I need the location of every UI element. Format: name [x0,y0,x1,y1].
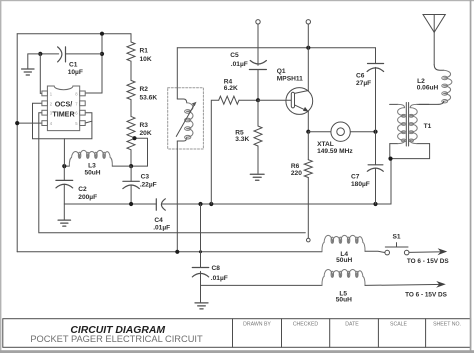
wire: antenna drop [433,32,435,64]
svg-text:C7: C7 [351,174,360,181]
svg-text:.01µF: .01µF [231,61,248,68]
svg-text:180µF: 180µF [351,181,370,188]
resistor R1 [127,42,135,61]
svg-text:T1: T1 [424,123,432,130]
svg-text:27µF: 27µF [356,80,371,87]
wire: pin4 to left rail [17,122,42,124]
wire: top mid rail [177,47,375,49]
svg-text:10µF: 10µF [68,69,83,76]
svg-text:C1: C1 [69,61,78,68]
wire: T1 secondary bottom U [390,144,430,159]
transistor Q1 [286,88,313,115]
node: C8 bottom rail crossing [199,250,202,253]
page edge shading [0,0,474,1]
node: C1 left / ground [38,52,42,56]
svg-text:C4: C4 [154,217,163,224]
svg-text:R1: R1 [140,48,149,55]
wire: pin3 long rail [39,113,306,233]
svg-text:DRAWN BY: DRAWN BY [243,321,271,327]
svg-text:20K: 20K [140,130,152,137]
terminal: C5 top [256,20,260,24]
svg-text:10K: 10K [140,56,152,63]
node: bottom rail junction [175,250,179,254]
svg-text:TIMER: TIMER [52,109,75,118]
node: collector rail junction [306,46,310,50]
node: C1 right junction [100,52,104,56]
resistor R5 [257,100,259,126]
node: L3 left / C2 [62,164,66,168]
wire: emitter drop [307,111,309,131]
svg-text:SCALE: SCALE [390,321,408,327]
svg-text:220: 220 [291,170,302,177]
node: emitter / XTAL [306,130,310,134]
svg-text:R2: R2 [140,86,149,93]
node: pin4 / left rail [15,121,19,125]
transformer T1 [390,103,398,105]
node: C3 bottom [129,202,133,206]
svg-text:3.3K: 3.3K [235,136,249,143]
svg-text:POCKET PAGER ELECTRICAL CIRCUI: POCKET PAGER ELECTRICAL CIRCUIT [30,334,203,344]
wire: top mid rail drop at x=177 [176,48,178,99]
wire R3 bottom [130,150,132,166]
svg-text:0.06uH: 0.06uH [417,85,439,92]
inductor L2 [434,65,444,71]
title block [3,319,471,348]
wire: bottom rail to L4 [17,251,322,253]
svg-text:XTAL: XTAL [317,141,334,148]
IC U1 OCS/TIMER body [42,86,85,131]
svg-text:200µF: 200µF [78,194,97,201]
svg-text:50uH: 50uH [336,297,352,304]
svg-text:OCS/: OCS/ [55,99,73,108]
node: XTAL right [373,130,377,134]
switch S1 [385,250,390,255]
wire: collector riser [307,24,309,91]
ground (below R5) [250,173,264,175]
capacitor C1 [40,53,58,55]
node: T1 bottom [388,157,392,161]
terminal: collector top [306,20,310,24]
svg-text:S1: S1 [393,233,401,240]
ground (below C8) [195,302,208,304]
capacitor C7 [375,132,377,165]
wire: pin-loop drop to L3/C2 node [63,139,65,166]
wire: pin5 slant [85,121,92,123]
svg-text:50uH: 50uH [336,257,352,264]
wire: R3 tap loop [131,138,147,166]
node: top rail / riser junction [100,32,104,36]
capacitor C6 [375,48,377,64]
wire: L4 to switch [365,251,385,252]
svg-text:TO 6 - 15V DS: TO 6 - 15V DS [407,258,450,265]
svg-text:DATE: DATE [345,321,359,327]
resistor chain riser [130,34,132,42]
node: base junction [256,98,260,102]
capacitor C5 [250,61,266,64]
resistor R2 [127,80,135,99]
svg-text:CHECKED: CHECKED [293,321,319,327]
wire: top supply rail [17,33,131,35]
resistor R6 [307,132,309,160]
terminal: R6 bottom [307,238,311,242]
svg-text:C2: C2 [78,186,87,193]
svg-text:.01µF: .01µF [153,225,170,232]
wire R1-R2 [130,61,132,80]
svg-text:C5: C5 [230,52,239,59]
svg-text:MPSH11: MPSH11 [277,76,303,83]
svg-text:C3: C3 [141,173,150,180]
wire: pin2-pin6 box [33,103,92,139]
crystal XTAL [308,131,331,133]
node: R4 bottom [209,202,213,206]
capacitor C3 [130,166,132,181]
antenna [423,15,445,33]
variable inductor L1 [177,99,186,103]
capacitor C4 [155,199,157,210]
svg-text:.22µF: .22µF [140,182,157,189]
inductor L4 [322,235,365,251]
resistor R3 (tapped) [127,116,135,149]
ground (left of C1) [22,68,34,70]
node: C7 bottom rail [373,202,377,206]
wire: arrow to supply (lower) [365,284,444,285]
svg-text:L3: L3 [88,163,96,170]
inductor L3 [64,165,69,167]
svg-text:53.6K: 53.6K [140,95,158,102]
inductor L5 [322,270,365,286]
dashed tuning box [168,88,204,149]
wire: arrow to supply (upper) [409,251,445,254]
wire: C1 right / pin8 riser [85,34,102,93]
wire: mid horizontal rail (C2 to T1) [64,203,156,205]
svg-text:C8: C8 [212,265,221,272]
arrow through inductor [176,104,195,137]
svg-text:C6: C6 [356,73,365,80]
wire: left rail down to bottom [16,34,18,252]
svg-text:6.2K: 6.2K [224,85,238,92]
wire: to ground [28,54,41,69]
wire: C5 drop [257,24,259,65]
node: R3 / L3 / C3 junction [129,164,133,168]
node: C8 top [198,202,202,206]
resistor R4 [211,100,218,204]
svg-text:.01µF: .01µF [211,275,228,282]
wire: variable inductor to bottom rail [176,141,178,252]
svg-text:Q1: Q1 [277,68,286,75]
capacitor C8 [200,204,202,268]
svg-text:50uH: 50uH [84,170,100,177]
svg-text:149.59 MHz: 149.59 MHz [317,148,353,155]
svg-text:TO 6 - 15V DS: TO 6 - 15V DS [405,291,448,298]
node: R3 tap [132,136,136,140]
ground (below C2) [58,219,70,221]
wire: pin 1 drop [40,54,42,94]
svg-text:R3: R3 [140,122,149,129]
capacitor C2 [63,166,65,180]
wire: C8 node to L5 [201,284,323,286]
svg-text:SHEET NO.: SHEET NO. [433,321,461,327]
wire R2-R3 [130,100,132,117]
